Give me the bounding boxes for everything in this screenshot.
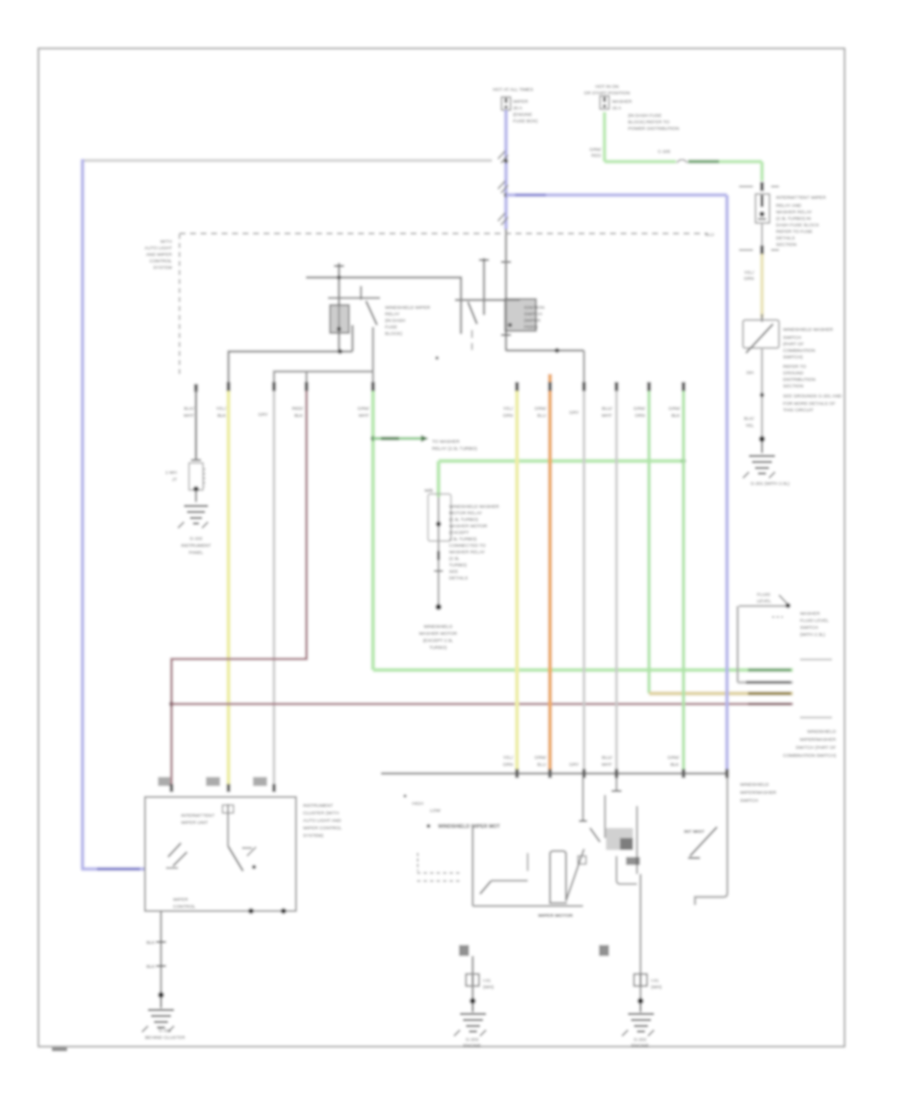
svg-text:GRY: GRY	[569, 410, 579, 415]
ground G5	[160, 997, 162, 1008]
label BLU on wire W3	[97, 867, 140, 870]
svg-text:GRN/: GRN/	[669, 406, 681, 411]
control module box	[145, 797, 296, 911]
relay K1 coil vertical	[338, 263, 340, 352]
svg-text:WIPER CONTROL: WIPER CONTROL	[303, 826, 342, 831]
label on gray wire right end	[746, 681, 791, 684]
svg-text:(EXCEPT: (EXCEPT	[449, 530, 469, 535]
wire W2 blue main vertical left	[81, 159, 85, 869]
wire W8 short vertical ignition pin	[483, 258, 485, 315]
svg-text:SWITCH: SWITCH	[740, 798, 758, 803]
svg-text:THIS CIRCUIT: THIS CIRCUIT	[783, 408, 814, 413]
svg-text:HOT IN ON: HOT IN ON	[595, 84, 619, 89]
wire green horizontal continue	[719, 162, 762, 181]
svg-text:BLK: BLK	[294, 413, 304, 418]
svg-text:AUTO LIGHT: AUTO LIGHT	[145, 246, 173, 251]
svg-text:(WIPER: (WIPER	[524, 318, 541, 323]
svg-text:WIPER: WIPER	[513, 99, 529, 104]
svg-text:WIPER/WASHER: WIPER/WASHER	[800, 737, 837, 742]
svg-text:RED/: RED/	[292, 406, 304, 411]
connector C5 right	[634, 974, 647, 986]
box internal coil	[227, 804, 229, 846]
svg-text:COMBINATION SWITCH): COMBINATION SWITCH)	[783, 753, 836, 758]
svg-text:(WH): (WH)	[651, 985, 662, 990]
svg-text:I-01: I-01	[651, 978, 659, 983]
relay box pin ticks	[172, 784, 275, 792]
wire pale yellow drop	[760, 254, 764, 318]
svg-text:BLK: BLK	[670, 762, 680, 767]
svg-text:ORN: ORN	[635, 413, 645, 418]
wire gray horizontal from fluid switch	[738, 681, 793, 684]
wire W9 ignition contact row	[455, 299, 520, 301]
label on maroon wire right end	[748, 703, 791, 706]
svg-text:G-203: G-203	[466, 1037, 479, 1042]
svg-text:WHT: WHT	[602, 762, 613, 767]
svg-text:RELAY AND: RELAY AND	[776, 203, 802, 208]
ground G4 right column	[761, 442, 763, 453]
label BLU on wire W5	[515, 193, 546, 196]
svg-text:FUSE BOX): FUSE BOX)	[513, 119, 538, 124]
node dot above ground right	[759, 436, 765, 442]
box internal left switch	[168, 843, 187, 866]
relay K1 contact row	[328, 297, 380, 299]
svg-text:REFER TO FUSE: REFER TO FUSE	[776, 229, 813, 234]
node dot above ground G5	[158, 992, 164, 998]
svg-text:HIGH: HIGH	[412, 801, 423, 806]
svg-text:20 A: 20 A	[513, 106, 523, 111]
node junction dot W4/W1	[504, 159, 508, 163]
svg-text:WITH: WITH	[160, 239, 172, 244]
washer motor M1 body	[428, 494, 451, 541]
wire green683 column	[682, 391, 685, 772]
wire gray584 below bus	[582, 778, 584, 821]
svg-text:(2.3L: (2.3L	[449, 556, 460, 561]
svg-text:ENGINE: ENGINE	[463, 1043, 481, 1048]
svg-text:CLUSTER (WITH: CLUSTER (WITH	[303, 811, 339, 816]
int relay small box	[578, 856, 586, 864]
wire gray L bracket below bus right	[695, 778, 727, 905]
wire W4 blue vertical center feed	[504, 110, 508, 229]
svg-text:GRY: GRY	[569, 762, 579, 767]
svg-text:(IN DASH FUSE: (IN DASH FUSE	[628, 113, 662, 118]
svg-text:CONNECTED TO: CONNECTED TO	[449, 543, 486, 548]
wire green washer top horizontal	[439, 459, 684, 463]
svg-text:BLK: BLK	[217, 413, 227, 418]
svg-text:FLUID LEVEL: FLUID LEVEL	[800, 618, 829, 623]
svg-text:(ENGINE: (ENGINE	[513, 112, 532, 117]
washer fluid level switch S3	[739, 605, 786, 607]
int relay cluster left bar	[604, 795, 606, 838]
svg-text:WHT: WHT	[184, 413, 195, 418]
svg-text:(IN DASH: (IN DASH	[385, 318, 405, 323]
svg-text:SECTION: SECTION	[783, 384, 803, 389]
svg-text:BLOCK): BLOCK)	[385, 331, 403, 336]
relay K1 coil body	[330, 305, 349, 333]
svg-text:FLUID: FLUID	[757, 592, 771, 597]
fuse F1	[502, 97, 511, 110]
svg-text:15 A: 15 A	[612, 106, 622, 111]
ground G3	[640, 1003, 642, 1012]
box bottom pin dots	[248, 908, 254, 914]
svg-text:GRN: GRN	[503, 413, 513, 418]
wire W7 bus of left relay	[306, 278, 461, 335]
svg-text:LEVEL: LEVEL	[757, 599, 772, 604]
svg-text:SYSTEM: SYSTEM	[153, 265, 172, 270]
int relay coil blob	[606, 828, 633, 850]
wire blue right column	[725, 195, 729, 772]
svg-text:(WH): (WH)	[483, 985, 494, 990]
svg-text:SEE GROUNDS G-201 AND: SEE GROUNDS G-201 AND	[783, 394, 842, 399]
svg-text:BLK: BLK	[146, 964, 156, 969]
wire tan horizontal	[649, 692, 793, 696]
switch lever ignition	[468, 302, 477, 324]
svg-text:BLOCK) REFER TO: BLOCK) REFER TO	[628, 120, 670, 125]
wiper motor park loop	[550, 851, 566, 903]
svg-text:JT: JT	[172, 477, 177, 482]
svg-text:LOW: LOW	[430, 808, 441, 813]
svg-text:(2.3L TURBO): (2.3L TURBO)	[449, 517, 479, 522]
connector chevrons C3 on wire W4	[498, 213, 508, 225]
svg-text:RED: RED	[591, 153, 601, 158]
svg-text:YEL/: YEL/	[744, 270, 755, 275]
diode D1 component	[191, 459, 201, 461]
node junction dot on W10	[555, 348, 560, 353]
wire maroon horizontal to switch	[172, 703, 794, 706]
svg-text:SWITCH: SWITCH	[783, 335, 801, 340]
svg-text:WASHER RELAY: WASHER RELAY	[776, 210, 812, 215]
connector tick row y386 overlay	[229, 382, 684, 391]
svg-text:TO WASHER: TO WASHER	[432, 439, 460, 444]
svg-text:WINDSHIELD: WINDSHIELD	[424, 624, 454, 629]
svg-text:DASH FUSE BLOCK: DASH FUSE BLOCK	[776, 223, 820, 228]
wiper motor top marks	[404, 795, 407, 798]
connector chevrons C2 on wire W4	[498, 181, 508, 193]
svg-text:INSTRUMENT: INSTRUMENT	[303, 803, 333, 808]
svg-text:(PART OF: (PART OF	[783, 342, 804, 347]
svg-text:G-202: G-202	[634, 1037, 647, 1042]
svg-text:WASHER: WASHER	[612, 99, 633, 104]
wire W3 blue horizontal into relay box	[81, 867, 146, 871]
svg-text:WIPER UNIT: WIPER UNIT	[181, 820, 208, 825]
ignition switch S1 body	[505, 299, 536, 331]
wire yellow2 column	[515, 391, 519, 772]
svg-text:YEL/: YEL/	[216, 406, 227, 411]
svg-text:W/B: W/B	[424, 488, 433, 493]
svg-text:G-101: G-101	[159, 1028, 172, 1033]
svg-text:GROUND: GROUND	[783, 371, 804, 376]
svg-text:GRN/: GRN/	[668, 755, 680, 760]
stray dot	[435, 356, 438, 359]
svg-text:REFER TO: REFER TO	[783, 364, 806, 369]
svg-text:AUTO LIGHT AND: AUTO LIGHT AND	[303, 818, 342, 823]
svg-text:1-WH: 1-WH	[165, 470, 177, 475]
washer relay K2 body	[756, 194, 770, 223]
svg-text:BEHIND CLUSTER: BEHIND CLUSTER	[145, 1035, 186, 1040]
svg-text:CONTROL: CONTROL	[150, 259, 173, 264]
int relay diag	[590, 828, 600, 842]
wire W12 relay K1 output vertical	[351, 325, 353, 352]
node dot above ground G2	[470, 998, 476, 1004]
svg-text:GRN: GRN	[503, 762, 513, 767]
wire green bottom horizontal	[373, 668, 793, 672]
node junction dot on W13	[338, 349, 343, 354]
svg-text:SWITCH): SWITCH)	[783, 355, 803, 360]
pin tick below ignition switch	[501, 334, 511, 336]
svg-text:INTERMITTENT WIPER: INTERMITTENT WIPER	[776, 195, 827, 200]
svg-text:BLK/: BLK/	[184, 406, 195, 411]
wire W14 contact throw vertical	[372, 327, 374, 372]
svg-text:FOR MORE DETAILS OF: FOR MORE DETAILS OF	[783, 401, 836, 406]
svg-text:PANEL: PANEL	[189, 550, 204, 555]
svg-text:ENGINE: ENGINE	[631, 1043, 649, 1048]
svg-text:INT MIST: INT MIST	[684, 829, 705, 835]
wire gray column	[273, 391, 276, 789]
wiper motor dark title row	[427, 824, 431, 828]
connector bus ticks	[517, 769, 727, 778]
svg-text:OR START POSITION: OR START POSITION	[584, 91, 630, 96]
connector row washer relay bottom	[739, 249, 779, 251]
svg-text:GRN/: GRN/	[634, 406, 646, 411]
node dot above ground G3	[638, 998, 644, 1004]
label on tan wire right end	[748, 692, 791, 695]
svg-text:COMBINATION: COMBINATION	[783, 348, 815, 353]
svg-text:GRY: GRY	[258, 412, 268, 417]
svg-text:C-105: C-105	[658, 149, 671, 154]
wire green arrow branch	[373, 437, 421, 440]
svg-text:BLU: BLU	[537, 413, 546, 418]
wire green horizontal top right	[605, 160, 677, 164]
wire int relay down to ground	[640, 874, 642, 1000]
svg-text:GRN/: GRN/	[590, 147, 602, 152]
svg-text:GRN/: GRN/	[358, 406, 370, 411]
wire col1 dark gray vertical	[195, 390, 197, 459]
wiper motor park contact	[491, 880, 528, 882]
connector tick row y386	[196, 382, 684, 392]
svg-text:(EXCEPT 2.3L: (EXCEPT 2.3L	[423, 638, 453, 643]
wire maroon column and jog	[172, 391, 307, 789]
wire W15 row to gray and maroon columns	[274, 372, 373, 385]
label GRN dark segment on wire	[688, 160, 719, 164]
washer switch S2	[761, 314, 763, 322]
connector mark row 2	[156, 965, 166, 967]
svg-text:RELAY (2.3L TURBO): RELAY (2.3L TURBO)	[432, 446, 477, 451]
svg-text:TURBO): TURBO)	[449, 563, 467, 568]
svg-text:DISTRIBUTION: DISTRIBUTION	[783, 377, 815, 382]
wire wiper motor vertical	[472, 827, 474, 906]
svg-text:WINDSHIELD WASHER: WINDSHIELD WASHER	[449, 504, 500, 509]
svg-text:G-102: G-102	[190, 536, 203, 541]
svg-text:WINDSHIELD WIPER MOT: WINDSHIELD WIPER MOT	[438, 824, 500, 830]
wire below box to ground	[160, 911, 162, 995]
svg-text:BLK: BLK	[146, 940, 156, 945]
dashed option line horizontal	[180, 233, 708, 235]
int relay label dark	[626, 857, 640, 865]
svg-text:INSTRUMENT: INSTRUMENT	[181, 543, 211, 548]
wire gray616 resume below cluster	[617, 856, 638, 884]
node junction dot gray wire	[760, 393, 764, 397]
wire W1 gray feed horizontal top-left	[83, 159, 493, 162]
wire green drop to washer motor	[437, 461, 441, 497]
svg-text:RELAY: RELAY	[385, 312, 400, 317]
svg-text:YEL/: YEL/	[503, 755, 514, 760]
svg-text:GRN: GRN	[744, 276, 754, 281]
svg-text:FUSE: FUSE	[385, 325, 397, 330]
page label bottom left	[52, 1048, 67, 1052]
label on green wire right end	[748, 668, 791, 671]
svg-text:HOT AT ALL TIMES: HOT AT ALL TIMES	[493, 87, 533, 92]
svg-text:ORN/: ORN/	[535, 755, 547, 760]
svg-text:WIPER MOTOR: WIPER MOTOR	[538, 913, 573, 919]
wire orange column	[548, 374, 552, 772]
svg-text:WINDSHIELD WIPER: WINDSHIELD WIPER	[385, 305, 431, 310]
svg-text:BLU: BLU	[537, 762, 546, 767]
svg-text:WASHER: WASHER	[800, 611, 821, 616]
svg-text:BLU: BLU	[705, 232, 714, 237]
svg-text:BLK/: BLK/	[744, 416, 755, 421]
svg-text:SECTION: SECTION	[776, 242, 796, 247]
svg-text:YEL/: YEL/	[503, 406, 514, 411]
svg-text:TURBO): TURBO)	[429, 645, 447, 650]
svg-text:WIPER: WIPER	[173, 897, 189, 902]
svg-text:BLK: BLK	[671, 413, 681, 418]
svg-text:WINDSHIELD WASHER: WINDSHIELD WASHER	[783, 327, 834, 332]
wire W10 ignition output horizontal	[506, 349, 584, 351]
node junction dot W4/W5	[504, 193, 508, 197]
svg-text:MOTOR RELAY: MOTOR RELAY	[449, 511, 482, 516]
int relay cluster stub gray616	[616, 778, 618, 791]
svg-text:SWITCH: SWITCH	[800, 625, 818, 630]
wire W5 blue horizontal to right column	[506, 193, 727, 197]
svg-text:DETAILS: DETAILS	[449, 576, 468, 581]
dash note upper	[800, 659, 832, 661]
svg-text:WASHER RELAY: WASHER RELAY	[449, 550, 485, 555]
wire stub between relay body and connector	[761, 223, 763, 246]
wiper motor dashed position lines	[417, 853, 419, 871]
svg-text:SWITCH: SWITCH	[524, 312, 542, 317]
ground G1	[184, 506, 208, 524]
int relay cluster right bar	[636, 806, 638, 874]
connector mark row 1	[156, 941, 166, 943]
wire wiper motor bottom horizontal	[473, 905, 583, 907]
svg-text:BLU/: BLU/	[602, 755, 613, 760]
ground G2	[472, 1003, 474, 1012]
wire W13 row to yellow column	[229, 352, 353, 385]
svg-text:CONTROL: CONTROL	[173, 904, 196, 909]
relay K1 lever	[366, 301, 377, 325]
connector labels above relay box	[158, 777, 170, 786]
svg-text:(WITH 2.3L): (WITH 2.3L)	[800, 632, 825, 637]
label box BLK right wire	[599, 945, 609, 956]
svg-text:WASHER MOTOR: WASHER MOTOR	[449, 524, 488, 529]
svg-text:AND WIPER: AND WIPER	[146, 252, 173, 257]
wire gray bracket fluid switch	[736, 606, 738, 682]
svg-text:(2.3L TURBO) IN: (2.3L TURBO) IN	[776, 216, 811, 221]
connector chevrons C1 on wire W4	[498, 151, 508, 163]
dashed option line vertical	[179, 234, 181, 376]
label box BLK left wire	[459, 945, 469, 956]
svg-text:POWER DISTRIBUTION: POWER DISTRIBUTION	[628, 126, 679, 131]
svg-text:DETAILS: DETAILS	[776, 236, 795, 241]
fuse F2	[600, 96, 609, 109]
svg-text:SEE: SEE	[449, 569, 458, 574]
svg-text:WINDSHIELD: WINDSHIELD	[807, 729, 837, 734]
wire gray below washer switch	[761, 349, 763, 439]
svg-text:16A: 16A	[746, 370, 755, 375]
wire green fuse drop	[603, 112, 607, 162]
node junction dot green683	[681, 459, 686, 464]
svg-text:ORN/: ORN/	[535, 406, 547, 411]
box internal contacts	[242, 847, 252, 849]
svg-text:IGNITION: IGNITION	[524, 305, 544, 310]
svg-text:WHT: WHT	[359, 413, 370, 418]
svg-text:2.3L TURBO): 2.3L TURBO)	[449, 537, 477, 542]
svg-text:SWITCH (PART OF: SWITCH (PART OF	[796, 745, 837, 750]
svg-text:FEED): FEED)	[524, 325, 538, 330]
svg-text:INTERMITTENT: INTERMITTENT	[181, 813, 215, 818]
box internal lever	[228, 846, 243, 871]
node junction dot maroon branch	[169, 702, 174, 707]
relay K1 pin tick	[360, 286, 362, 300]
node junction K1 bus	[337, 275, 341, 279]
svg-text:WASHER MOTOR: WASHER MOTOR	[419, 631, 458, 636]
wire green column 373	[371, 391, 375, 670]
wire yellow column	[227, 391, 231, 789]
wire W6 gray vertical below connector to ignition switch	[505, 229, 507, 351]
wire W11 gray drop to column	[583, 351, 585, 387]
connector row washer relay top	[739, 186, 779, 188]
svg-text:WIPER/WASHER: WIPER/WASHER	[740, 790, 777, 795]
svg-text:WINDSHIELD: WINDSHIELD	[740, 782, 770, 787]
wire green649 column	[647, 391, 650, 694]
svg-text:BLU/: BLU/	[602, 406, 613, 411]
connector C4 left	[466, 974, 479, 986]
svg-text:I-01: I-01	[483, 978, 491, 983]
svg-text:G-201 (WITH 2.0L): G-201 (WITH 2.0L)	[750, 481, 790, 486]
svg-text:YEL: YEL	[745, 423, 754, 428]
svg-text:SYSTEM): SYSTEM)	[303, 833, 324, 838]
node junction dot green arrow	[371, 436, 376, 441]
wire gray616 column	[615, 391, 618, 772]
connector bus horizontal	[381, 772, 729, 774]
wire gray584 column	[583, 386, 586, 772]
svg-text:WHT: WHT	[602, 413, 613, 418]
dash note lower	[800, 717, 832, 719]
